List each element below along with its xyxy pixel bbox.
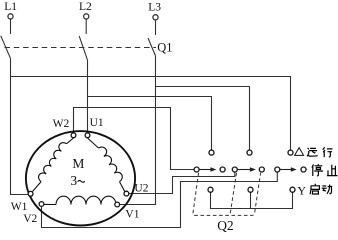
svg-text:Q2: Q2 xyxy=(217,218,234,233)
motor terminal V2 xyxy=(39,202,44,207)
Q2 linkage middle prong xyxy=(230,173,237,215)
contact row3 c2 xyxy=(248,187,253,192)
winding U coil xyxy=(88,138,99,148)
contact row2 F xyxy=(301,167,306,172)
contact row3 c3 xyxy=(290,187,295,192)
svg-text:L2: L2 xyxy=(79,1,92,13)
wire Y-row star bus xyxy=(211,192,293,208)
motor terminal W2 xyxy=(71,133,76,138)
contact row2 D xyxy=(259,167,264,172)
wire L2 bus xyxy=(88,97,212,150)
wire L3 bus xyxy=(156,87,250,150)
wire L1 vertical xyxy=(11,58,29,194)
char 止 xyxy=(327,165,337,176)
contact row2 A xyxy=(194,167,199,172)
svg-text:W1: W1 xyxy=(11,201,28,213)
svg-text:U1: U1 xyxy=(90,117,104,129)
svg-text:M: M xyxy=(72,156,84,171)
contact row1 c1 xyxy=(209,150,214,155)
motor terminal W1 xyxy=(28,191,33,196)
terminal L1 xyxy=(8,14,13,19)
svg-text:L3: L3 xyxy=(148,1,161,13)
winding W coil xyxy=(67,138,74,144)
movable contact E arrow xyxy=(280,169,292,171)
svg-text:V1: V1 xyxy=(125,209,139,221)
char 运 xyxy=(307,148,318,156)
contact row2 C xyxy=(232,167,237,172)
char 行 xyxy=(323,147,333,157)
Q2 linkage dashed frame xyxy=(193,173,261,216)
wire L3 stub xyxy=(155,20,157,35)
svg-text:U2: U2 xyxy=(134,183,148,195)
motor terminal U2 xyxy=(124,191,129,196)
Q1 linkage dashed xyxy=(5,47,157,49)
movable contact A arrow xyxy=(199,169,211,171)
contact row2 E xyxy=(275,167,280,172)
switch Q1 pole 2 blade xyxy=(79,36,87,59)
svg-text:3: 3 xyxy=(70,173,77,188)
motor terminal V1 xyxy=(115,202,120,207)
wire L3 vertical to V1 xyxy=(120,55,156,204)
wire L1 bus xyxy=(11,77,291,150)
svg-text:Q1: Q1 xyxy=(157,40,172,54)
switch Q1 pole 1 blade xyxy=(1,36,11,58)
svg-text:Y: Y xyxy=(297,183,306,197)
svg-text:W2: W2 xyxy=(53,118,70,130)
switch Q1 pole 3 blade xyxy=(148,38,155,55)
char 停 xyxy=(312,164,322,176)
svg-text:L1: L1 xyxy=(4,1,17,13)
symbol triangle (delta run) xyxy=(295,148,304,156)
wire L2 vertical xyxy=(87,60,89,133)
winding V coil xyxy=(44,203,56,205)
terminal L3 xyxy=(153,15,158,20)
char 启 xyxy=(310,184,319,194)
terminal L2 xyxy=(84,14,89,19)
char 动 xyxy=(322,185,333,194)
motor terminal U1 xyxy=(85,133,90,138)
contact row3 c1 xyxy=(208,187,213,192)
wire L1 stub xyxy=(10,20,12,34)
movable contact C arrow xyxy=(238,169,251,171)
wire V2 lead xyxy=(42,172,278,227)
wire U2 lead xyxy=(129,172,235,193)
tilde of 3~ xyxy=(78,180,85,182)
contact row1 c2 xyxy=(247,150,252,155)
svg-text:V2: V2 xyxy=(23,213,37,225)
motor M circle xyxy=(26,131,135,225)
contact row1 c3 xyxy=(288,150,293,155)
contact row2 B xyxy=(220,167,225,172)
wire W2 lead xyxy=(74,108,195,170)
wire L2 stub xyxy=(85,20,87,34)
